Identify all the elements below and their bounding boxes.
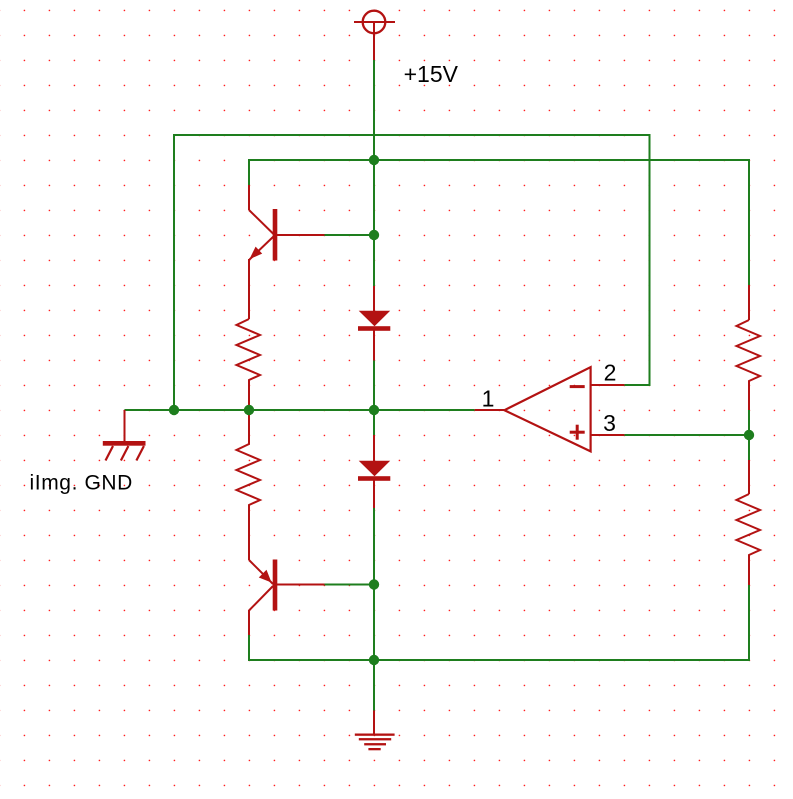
transistor Q2 [249, 560, 325, 636]
wire: main vertical from power pin to node at y160 [373, 60, 375, 160]
transistor Q1 [249, 185, 325, 319]
diode D1 [358, 286, 390, 361]
wire: vertical x=649.5 from y135 to y385 [649, 134, 651, 385]
junction node (249,410) [244, 405, 254, 415]
svg-text:+15V: +15V [404, 61, 459, 87]
wire: Q2 base to main vertical [325, 584, 375, 586]
wire: op-amp pin3 row y=435 to right rail [624, 434, 749, 436]
resistor R3 [737, 285, 761, 410]
resistor R4 [737, 460, 761, 585]
wire: bottom rail y=660 from x249 to x749 [249, 659, 749, 661]
junction node (374,235) [369, 230, 379, 240]
op-amp U1 [475, 367, 625, 451]
junction node (749,435) [744, 430, 754, 440]
wire: vertical x=249 from y160 to Q1 collector pin [248, 159, 250, 185]
wire: right vertical x=749 between R3 and R4 [748, 410, 750, 460]
ground (bottom, earth) [355, 711, 395, 751]
resistor R1 [237, 319, 261, 410]
wire: op-amp pin2 green stub to x649 [624, 384, 650, 386]
junction node (174,410) [169, 405, 179, 415]
svg-text:2: 2 [604, 360, 617, 386]
junction node (374,410) [369, 405, 379, 415]
wire: Q2 collector down x=249 [248, 635, 250, 661]
wire: main vertical y160 to y235 [373, 160, 375, 235]
wire: Q1 base to main vertical [325, 234, 375, 236]
wire: output row y=410 from gnd stub to op-amp [125, 409, 475, 411]
junction node (374,160) [369, 155, 379, 165]
wire: main vertical D1 to D2 [373, 360, 375, 435]
svg-text:1: 1 [482, 385, 495, 411]
svg-text:iImg. GND: iImg. GND [30, 472, 133, 495]
wire: right vertical x=749 below R4 [748, 585, 750, 661]
ground (left, iImg. GND) [103, 410, 146, 461]
wire: left vertical x=174 from y135 to y410 [173, 134, 175, 410]
junction node (374,585) [369, 579, 379, 589]
wire: horizontal rail y=135 from x174 to x649 [174, 134, 650, 136]
svg-text:3: 3 [603, 410, 616, 436]
wire: main vertical D2 to y660 [373, 508, 375, 661]
wire: main vertical y235 to D1 [373, 235, 375, 286]
wire: horizontal rail y=160 from x249 to x749 [249, 159, 749, 161]
power symbol +15V [354, 11, 395, 60]
resistor R2 [237, 410, 261, 560]
wire: right vertical x=749 top [748, 159, 750, 285]
junction node (374,660) [369, 655, 379, 665]
diode D2 [358, 435, 390, 508]
wire: main vertical y660 to ground pin [373, 660, 375, 711]
